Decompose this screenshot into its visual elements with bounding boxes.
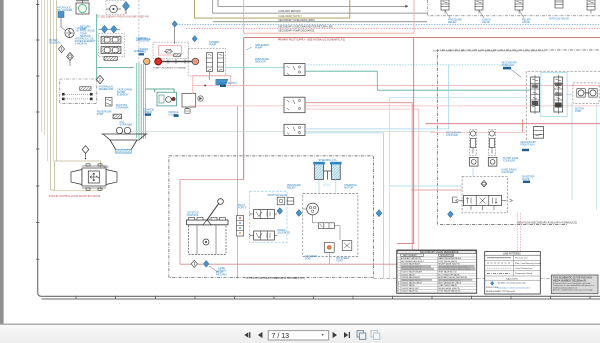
blue block under solenoid label [522, 149, 529, 151]
check valve small CV2 [198, 96, 203, 101]
wire: cyan dotted from G1 to right [305, 64, 510, 66]
main pump group dashed box [188, 48, 226, 76]
gauge port box G2 [284, 97, 305, 113]
toolbar first-page button [244, 332, 250, 338]
toolbar last-page button [344, 332, 350, 338]
fan pump dashed box [106, 1, 125, 15]
wire: primary pilot supply red box top [244, 37, 600, 39]
solenoid valve H2 [249, 231, 277, 240]
blue block under orifice label [174, 114, 179, 117]
svg-text:ANTI CAVITATION CHECK: ANTI CAVITATION CHECK [438, 282, 462, 285]
wire: pale return line from tank to right [120, 131, 435, 133]
check pair small [277, 197, 285, 205]
wire: left return bundle line 5 [53, 0, 55, 161]
orbital steering unit circle cluster [307, 203, 319, 215]
tank enclosure dash-dot [60, 79, 97, 104]
callouts diamond sample [491, 281, 494, 285]
wire: red pilot loop inside joystick box [180, 180, 414, 265]
svg-text:12: 12 [397, 288, 399, 290]
wire: secondary pump discharge (pink dotted) [186, 28, 600, 30]
relief valve RVC [515, 0, 523, 14]
valve reference table frame [397, 250, 477, 293]
wire: diverter bottom ports [471, 206, 494, 210]
line patterns header rule [485, 254, 541, 256]
pressure reducing valve PR1 [534, 127, 544, 139]
filter diamond D3 with circle [67, 53, 74, 61]
toolbar previous-view icon [357, 331, 366, 340]
hydraulic tank body [101, 134, 147, 150]
wire: red pilot branch up to diverter area [329, 246, 331, 264]
diverter directional valve 3pos [456, 195, 513, 205]
svg-text:Aftermkt: complete blocks may: Aftermkt: complete blocks may vary incre… [553, 289, 593, 292]
motor M1 top-left [76, 0, 89, 14]
orifice box right [182, 93, 196, 112]
main aux spool valve S1 [531, 75, 540, 114]
wire: teal feed line over control box [146, 89, 175, 92]
svg-text:JOYSTICKCONTROL: JOYSTICKCONTROL [187, 212, 200, 218]
wire: filter connects [69, 61, 71, 67]
pilot valve stack column [237, 216, 244, 237]
toolbar top border [0, 324, 600, 325]
sensor diamond pair left 1 [99, 25, 111, 33]
wire: cyan far right vertical [596, 103, 598, 210]
wire: green verticals into tank 3 [142, 64, 144, 139]
svg-text:11: 11 [397, 285, 399, 287]
svg-text:AUXILIARY VALVE P/N: AUXILIARY VALVE P/N [401, 257, 421, 260]
svg-text:Pressure Line: Pressure Line [515, 257, 529, 260]
joystick body box [189, 225, 226, 255]
svg-text:DESCRIPTION: DESCRIPTION [440, 255, 454, 257]
wire: maroon pilot vertical center [237, 106, 239, 279]
wire: light blue from right assembly [389, 97, 541, 99]
blue block under label [145, 113, 151, 115]
blue diamond right joystick [296, 210, 302, 217]
blue diamond at diverter outlet [448, 211, 454, 218]
bypass valve B1 circle [65, 28, 74, 37]
wire: left return bundle line 3 [47, 0, 49, 161]
gauge port box G1 [284, 64, 305, 76]
gear pump circle (salmon) [192, 58, 199, 65]
wire: red from G2 [305, 103, 412, 279]
wire: cyan second vertical [388, 98, 390, 279]
svg-text:7100263 VALVE SET: 7100263 VALVE SET [401, 287, 420, 290]
wire: pump label leader [246, 47, 252, 50]
wire: leader to valve C [519, 10, 524, 18]
wire: teal main line from pump area down [96, 14, 98, 79]
valve table body text rows [397, 257, 471, 292]
lock valve dashed enclosure [99, 33, 125, 57]
svg-text:VENT VALVE BLOCK: VENT VALVE BLOCK [438, 271, 457, 274]
olive box around drive axle [54, 161, 100, 191]
small valve right in motor box [342, 241, 352, 251]
wire: pink servo box bottom [193, 84, 231, 86]
wire: left return bundle line 2 [44, 0, 46, 135]
blue diamond left of motor [296, 210, 302, 217]
wire: cyan lower from G3 [305, 133, 384, 279]
blue block under servo label [220, 85, 226, 87]
wire: cylinders to motor lines [319, 180, 336, 194]
svg-text:13: 13 [397, 291, 399, 293]
svg-text:PART NUMBER: PART NUMBER [403, 254, 417, 257]
suction line dotted row 2 [62, 98, 93, 101]
svg-text:1: 1 [397, 258, 398, 260]
blue diamond outside joystick box [376, 210, 382, 217]
svg-text:9: 9 [397, 280, 398, 282]
relief valve RVA [441, 0, 449, 14]
quick coupler QC2 [488, 158, 497, 167]
wire: left return bundle line 4 [50, 0, 52, 190]
blue diamond mid joystick [277, 208, 283, 215]
toolbar page input box [268, 331, 328, 340]
gauge port box G3 [284, 124, 305, 135]
svg-text:7 / 13: 7 / 13 [272, 333, 290, 340]
wire: teal verticals into tank 2 [138, 63, 140, 139]
wire: secondary case drain motor return (blue dotted) [177, 24, 600, 26]
svg-text:3: 3 [397, 264, 398, 266]
gear pump dashed sub-box [153, 42, 189, 59]
steering cylinder pair blue [313, 162, 341, 180]
axle mounting plates [82, 164, 106, 190]
svg-text:6: 6 [397, 272, 398, 274]
svg-text:8: 8 [397, 277, 398, 279]
wire: green verticals into tank 4 [145, 64, 147, 139]
tank port symbol left of diverter [453, 197, 458, 203]
svg-text:7100238 VALVE ASSY: 7100238 VALVE ASSY [401, 276, 421, 279]
svg-text:4: 4 [397, 266, 398, 268]
line patterns grid [485, 255, 541, 280]
svg-text:STEERING CYL: STEERING CYL [319, 159, 338, 162]
svg-text:HIGH FLOW (SECONDARY AUXILIARY: HIGH FLOW (SECONDARY AUXILIARY HYDRAULIC… [517, 222, 577, 225]
toolbar next button [333, 332, 337, 338]
svg-text:JOYSTICK CONTROL (STEERING ATT: JOYSTICK CONTROL (STEERING ATTACHMENT KI… [246, 277, 305, 280]
wire: salmon into assembly [430, 132, 526, 134]
svg-text:SHUTTLE VALVE: SHUTTLE VALVE [267, 194, 287, 197]
svg-text:www.bobcat.com/service/schemat: www.bobcat.com/service/schematics [498, 287, 531, 290]
steering motor sub dashed box [303, 193, 358, 256]
hydrostatic pump circle (red) [155, 58, 162, 65]
joystick section dash-dot enclosure [169, 156, 374, 278]
wire: leader to valve A [445, 10, 450, 18]
svg-text:7100270 VALVE KIT: 7100270 VALVE KIT [401, 290, 419, 293]
wire: cyan connect to motor [567, 94, 573, 96]
valve small under teal box [185, 109, 190, 113]
tank pump circle 2 [124, 127, 130, 133]
svg-text:7100171 VALVE: 7100171 VALVE [401, 273, 415, 276]
junction dot servo [204, 85, 206, 87]
svg-text:7100148 VALVE ASSY: 7100148 VALVE ASSY [401, 263, 421, 266]
svg-text:Component Group: Component Group [515, 272, 533, 275]
solenoid valve SV2 [488, 130, 495, 156]
aux motor circles [577, 89, 597, 97]
svg-text:7100170 VALVE-RELIEF: 7100170 VALVE-RELIEF [401, 271, 423, 274]
svg-text:10: 10 [397, 283, 399, 285]
svg-text:SECONDARY VALVE REFERENCE: SECONDARY VALVE REFERENCE [420, 251, 459, 254]
oil cooler blue block [58, 12, 64, 18]
wire: case drain supply line (olive box bottom) [195, 0, 350, 18]
svg-text:Case / Return Line: Case / Return Line [515, 267, 533, 270]
wire: cyan stub to couplers [472, 168, 474, 176]
wire: motor internal connects [303, 209, 340, 240]
wire: secondary case drain line (black) [213, 21, 427, 23]
toolbar band [0, 324, 600, 343]
svg-text:ENGINE: ENGINE [134, 50, 144, 53]
filter diamond D2 [59, 45, 65, 52]
svg-text:MEDIA NUMBER 7325350enUS: MEDIA NUMBER 7325350enUS [486, 290, 515, 293]
wire: cyan right edge vertical [571, 103, 573, 200]
svg-text:PORT RELIEF VALVE KIT: PORT RELIEF VALVE KIT [438, 290, 461, 293]
toolbar next-view icon (disabled) [371, 331, 380, 340]
pattern sample: drain dotted [487, 267, 511, 269]
wire: pump outlet teal down [209, 72, 211, 81]
svg-text:SECONDARY AUX HI-FLO: SECONDARY AUX HI-FLO [401, 260, 424, 263]
relief valve RV1 [105, 98, 112, 107]
wire: red box A right edge [397, 38, 414, 244]
svg-text:CASE DRAIN SUPPLY: CASE DRAIN SUPPLY [278, 15, 302, 18]
breather diamond below joystick [191, 260, 197, 267]
pattern names [515, 257, 541, 276]
svg-text:HYDRAULICRESERVOIR: HYDRAULICRESERVOIR [99, 86, 114, 92]
wire: teal verticals into tank 1 [136, 63, 138, 138]
pattern sample: pressure [487, 257, 511, 259]
relief valve RVE [587, 0, 595, 14]
svg-text:PRIMARY PILOT SUPPLY - (SEE HY: PRIMARY PILOT SUPPLY - (SEE HYDRAULIC SC… [278, 39, 345, 42]
wire: teal vertical to control box [154, 89, 156, 92]
viewer left gray strip [0, 0, 4, 324]
diverter pilot diamond-circle [481, 180, 487, 187]
wire: cyan from G3 to right [305, 65, 449, 129]
wire: teal branch horizontal to tank bundle [97, 67, 134, 69]
wire: pink line from pump top [193, 76, 600, 94]
wire: dotted red pair down from assembly [517, 213, 519, 279]
lock valve LV1 hatched [101, 36, 121, 43]
wire: leader to valve B [479, 10, 484, 18]
cyan sub-box around spool 2 [541, 73, 567, 117]
svg-text:Pilot / Load Sensing Circuits: Pilot / Load Sensing Circuits [515, 262, 541, 265]
axle cross arrows [90, 173, 99, 181]
wire: salmon from G2 [305, 109, 419, 279]
toolbar prev button [258, 332, 262, 338]
svg-text:RELIEF VALVE 3000 PSI: RELIEF VALVE 3000 PSI [438, 263, 460, 266]
svg-text:SECONDARY PUMP DISCHARGE: SECONDARY PUMP DISCHARGE [278, 29, 314, 32]
valve table column header cells [401, 254, 454, 256]
servo highlighted blue label [216, 79, 228, 85]
inner dashed box top [526, 71, 600, 140]
svg-text:AUXILIARY RELIEF CARTRIDGE: AUXILIARY RELIEF CARTRIDGE [438, 276, 467, 279]
blue diamond below joystick [203, 260, 209, 267]
valve table highlight bars [401, 265, 475, 280]
pump drive shaft [162, 61, 192, 63]
wire: pink line mid to right [189, 105, 600, 107]
engine pulley circle (orange) [144, 58, 150, 64]
svg-text:T2(B): T2(B) [103, 167, 109, 169]
strainer hatched inside tank [80, 87, 91, 91]
wire: auxiliary return arrow [405, 5, 408, 8]
case drain filter hatched F2 [113, 114, 122, 119]
svg-text:Identifies connection points w: Identifies connection points with [498, 281, 526, 284]
svg-text:AUXILIARY RETURN: AUXILIARY RETURN [278, 10, 300, 13]
svg-text:PILOT SHUTOFF VALVE: PILOT SHUTOFF VALVE [438, 273, 460, 276]
pattern sample: component dashdot [487, 272, 511, 274]
svg-text:CALLOUTS: CALLOUTS [506, 277, 518, 280]
wire: label leader [209, 266, 218, 272]
wire: cyan line from pump box to gauge port box [226, 67, 284, 69]
blue block under charge relief [139, 53, 145, 55]
svg-text:THIS SCHEMATIC IS FOR THE HIGH: THIS SCHEMATIC IS FOR THE HIGH [553, 276, 592, 279]
wire: cooler drop line [61, 18, 66, 32]
sensor diamond pair left 2 [111, 25, 121, 33]
fill breather diamond D5 [82, 146, 89, 160]
gear pump pink highlight box [159, 46, 182, 55]
suction line dotted row 1 [62, 93, 93, 96]
teal control sub-box left [157, 92, 176, 106]
svg-text:PORT RELIEF VALVE: PORT RELIEF VALVE [438, 260, 457, 263]
wire: gray dashed vertical at left of pump [138, 0, 140, 131]
steering valve horizontal [319, 223, 335, 229]
frame zone ticks left [36, 4, 39, 259]
note box small text [553, 282, 594, 292]
blue diamond right of pump [192, 36, 197, 42]
muffler element hatched small [104, 57, 117, 61]
joystick handle assembly [187, 199, 228, 225]
motor sub dashed box right [573, 83, 599, 103]
svg-text:RELIEF VALVE 3300 PSI: RELIEF VALVE 3300 PSI [438, 287, 460, 290]
svg-text:2: 2 [397, 261, 398, 263]
wire: left return bundle line 6 [56, 0, 58, 161]
svg-text:CASEDRAIN: CASEDRAIN [218, 267, 226, 273]
diverter assembly dashed box [462, 176, 507, 213]
relief w orange dot [324, 243, 334, 253]
svg-text:SUCTIONSTRAINER: SUCTIONSTRAINER [116, 104, 129, 110]
shaft hash marks [168, 59, 185, 63]
svg-text:ANTI-CAV VALVE: ANTI-CAV VALVE [549, 18, 569, 21]
valve bank dashed enclosure [428, 0, 600, 16]
wire: teal from G1 down right [305, 71, 531, 90]
valve table grid and rows [397, 257, 477, 293]
breather diamond D4 [96, 75, 103, 83]
wire: diamond stem [174, 27, 176, 44]
svg-text:PUMP 1 MOUNTED TO ENGINE: PUMP 1 MOUNTED TO ENGINE [154, 68, 187, 70]
wire: salmon supply box bottom [244, 0, 414, 33]
wire: teal vertical pair upper right of tank [140, 64, 142, 139]
solenoid valve H1 [249, 210, 277, 219]
drive axle symbol [71, 168, 117, 186]
svg-text:7100257 VALVE: 7100257 VALVE [401, 284, 415, 287]
svg-text:7: 7 [397, 274, 398, 276]
gear pump valve element [164, 49, 173, 53]
wire: red drop to reducer [522, 119, 524, 132]
cyan sub-box solenoid pair [250, 191, 287, 242]
valve table header band [398, 251, 476, 254]
wire: left return bundle line 1 [41, 0, 43, 132]
svg-text:TO SECONDARY FRONT AUXILIARY (: TO SECONDARY FRONT AUXILIARY (SEE P.4) [97, 15, 149, 18]
valve table column header text [403, 254, 454, 257]
pump P2 small circle [106, 5, 121, 13]
note box frame [551, 275, 598, 294]
pump section spool 1 [207, 53, 213, 72]
wire: dash-dot continuation to right [374, 278, 567, 280]
svg-text:SERVO SUPPLY: SERVO SUPPLY [218, 82, 237, 85]
wire: red pilot into diverter [411, 189, 462, 191]
solenoid valve SV1 [469, 130, 476, 156]
line patterns table frame [485, 252, 541, 295]
svg-text:SECONDARY CASE DRAIN (MDC): SECONDARY CASE DRAIN (MDC) [278, 19, 315, 22]
secondary aux enclosure bottom [440, 224, 567, 226]
frame zone ticks bottom [76, 296, 590, 299]
gear pump hatched element 2 [174, 54, 181, 57]
svg-text:LOAD CHECK VALVE: LOAD CHECK VALVE [438, 284, 457, 287]
quick coupler QC1 [469, 158, 478, 167]
pattern sample: pilot dashed [487, 262, 511, 264]
wire: label leader [511, 70, 521, 78]
wire: auxiliary return line (gray box bottom) [213, 0, 427, 13]
blue diamond above pump [172, 21, 177, 27]
wire: olive loop around drive axle [51, 161, 101, 190]
sheet frame inner bottom line [42, 298, 600, 300]
svg-text:6730148 CONTROL VALVE MOUNTING: 6730148 CONTROL VALVE MOUNTING DETAIL [49, 195, 102, 198]
svg-text:NOTE: SECONDARY AUXILIARY CONT: NOTE: SECONDARY AUXILIARY CONTROL VALVE … [433, 50, 545, 53]
svg-text:5: 5 [397, 269, 398, 271]
wire: dotted red pair down 2 [519, 213, 521, 279]
wire: cyan line into diverter assembly [389, 185, 462, 187]
wire: red supply into assembly [425, 123, 600, 125]
svg-text:SECONDARY CASE DRAIN MOTOR RET: SECONDARY CASE DRAIN MOTOR RETURN LINE [278, 25, 333, 28]
secondary aux dash-dot enclosure [437, 50, 600, 225]
tank pump circle 1 [116, 127, 122, 133]
svg-text:SECONDARYFRONT AUX: SECONDARYFRONT AUX [520, 141, 536, 147]
svg-text:MEDIA NUMBER 7325350enUS: MEDIA NUMBER 7325350enUS [553, 279, 587, 282]
check pair small 2 [287, 198, 294, 205]
lock valve LV2 hatched [101, 46, 121, 53]
main aux spool valve S2 [554, 75, 563, 114]
relief valve RVD [555, 0, 563, 8]
wire: primary pilot supply red box left edge [243, 38, 245, 180]
blue block under diverter label [523, 181, 530, 183]
svg-text:MAIN PRESSURE RELIEF: MAIN PRESSURE RELIEF [438, 257, 462, 260]
pump section spool 2 [218, 53, 224, 72]
blue block under secondary aux label [503, 67, 511, 70]
svg-text:7100251 VALVE-CHECK: 7100251 VALVE-CHECK [401, 282, 423, 285]
tank fluid hatch [116, 150, 132, 154]
relief valve RVB [475, 0, 483, 14]
check valve diamond D1 [122, 2, 129, 14]
wire: gray return box inner (arrow end) [218, 0, 407, 6]
